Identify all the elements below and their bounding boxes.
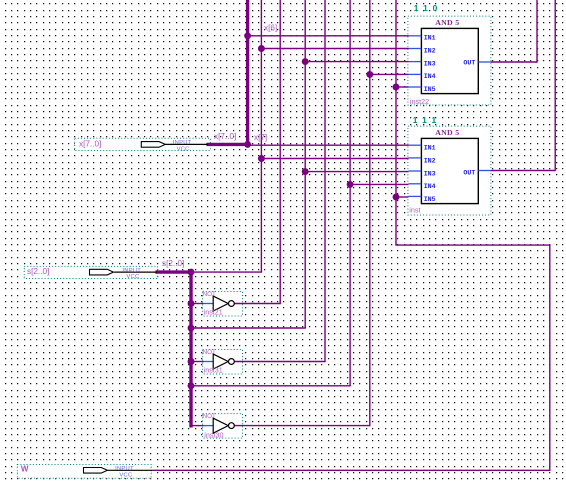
svg-text:IN5: IN5 — [424, 196, 436, 203]
svg-text:x[6]: x[6] — [264, 24, 277, 33]
svg-text:AND 5: AND 5 — [435, 128, 459, 137]
svg-text:IN4: IN4 — [424, 73, 436, 80]
svg-text:NOT: NOT — [203, 413, 216, 420]
svg-text:inst30: inst30 — [204, 431, 223, 440]
svg-text:AND 5: AND 5 — [435, 18, 459, 27]
svg-text:1 1 0: 1 1 0 — [414, 3, 439, 13]
svg-text:INPUT: INPUT — [122, 268, 141, 274]
svg-text:NOT: NOT — [203, 291, 216, 298]
svg-text:x[7..0]: x[7..0] — [214, 132, 236, 141]
svg-text:IN2: IN2 — [424, 157, 436, 164]
svg-text:x[7]: x[7] — [254, 133, 267, 142]
svg-text:IN1: IN1 — [424, 145, 436, 152]
svg-text:IN3: IN3 — [424, 60, 436, 67]
svg-text:VCC: VCC — [177, 147, 190, 153]
svg-text:1 1 1: 1 1 1 — [413, 115, 438, 125]
svg-text:INPUT: INPUT — [173, 140, 192, 146]
svg-text:NOT: NOT — [203, 349, 216, 356]
svg-text:OUT: OUT — [463, 170, 475, 177]
svg-text:IN5: IN5 — [424, 86, 436, 93]
svg-text:inst31: inst31 — [204, 366, 223, 375]
svg-text:IN3: IN3 — [424, 170, 436, 177]
svg-text:s[2..0]: s[2..0] — [162, 259, 184, 268]
svg-text:inst: inst — [409, 205, 420, 214]
svg-text:VCC: VCC — [119, 472, 132, 478]
svg-text:x[7..0]: x[7..0] — [79, 140, 101, 149]
svg-text:VCC: VCC — [126, 274, 139, 280]
svg-text:OUT: OUT — [463, 60, 475, 67]
svg-text:inst21: inst21 — [204, 308, 223, 317]
svg-text:inst22: inst22 — [410, 97, 429, 106]
svg-text:IN1: IN1 — [424, 35, 436, 42]
svg-text:IN4: IN4 — [424, 183, 436, 190]
svg-text:IN2: IN2 — [424, 47, 436, 54]
svg-text:W: W — [21, 464, 29, 473]
svg-text:INPUT: INPUT — [115, 466, 134, 472]
svg-text:s[2..0]: s[2..0] — [27, 267, 49, 276]
